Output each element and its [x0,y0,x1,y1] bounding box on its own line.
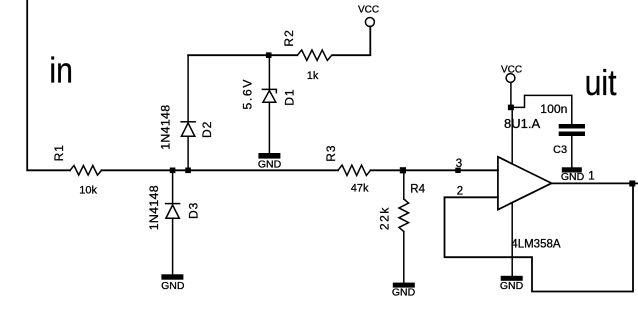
wire D3 to ground [172,218,174,274]
svg-text:R4: R4 [410,184,425,196]
wire R3 to op-amp pin3 [371,169,498,171]
wire input vertical + horizontal to R1 [27,0,70,170]
svg-text:R2: R2 [282,29,296,46]
wire R4 to ground [403,232,405,283]
svg-text:1: 1 [588,171,594,183]
zener diode D1 [262,89,276,102]
svg-text:GND: GND [500,280,524,292]
junction node pin8/VCC [508,105,514,111]
wire C3 to ground [571,136,573,167]
resistor R1 [70,166,101,176]
wire D1 to ground [268,102,270,153]
svg-text:VCC: VCC [501,65,522,76]
resistor R3 [338,165,370,175]
svg-text:D1: D1 [283,88,297,105]
svg-text:C3: C3 [553,144,567,156]
junction node R4/main wire [400,167,406,173]
wire pin8 into op-amp [511,107,513,163]
wire R4 branch upper lead [403,170,405,199]
wire op-amp pin2 feedback loop [445,183,634,291]
svg-text:D2: D2 [200,121,214,138]
svg-text:3: 3 [456,158,462,170]
svg-text:GND: GND [161,280,185,292]
power VCC (op-amp) [506,74,515,83]
svg-text:1k: 1k [307,70,319,82]
wire VCC to pin8 junction [510,82,512,105]
ground bar (C3) [562,167,582,172]
wire D2 branch lower lead [187,136,189,170]
svg-text:10k: 10k [79,184,97,196]
ground bar (D3) [161,274,183,279]
svg-text:4LM358A: 4LM358A [511,239,561,251]
svg-text:R1: R1 [52,144,66,161]
svg-text:5.6V: 5.6V [240,78,254,110]
power VCC (R2) [365,18,374,27]
svg-text:R3: R3 [324,144,338,161]
svg-text:VCC: VCC [358,4,379,15]
svg-text:47k: 47k [351,183,369,195]
ground bar (R4) [393,283,415,288]
diode D2 [181,122,195,137]
junction node D1/top rail [266,52,272,58]
wire top rail to R2 [188,54,297,56]
ground bar (op-amp pin4) [501,276,523,281]
resistor R2 [297,50,331,60]
svg-text:uit: uit [585,63,617,103]
capacitor C3 plates [559,124,585,129]
wire D1 branch upper lead [268,55,270,89]
resistor R4 [399,199,409,232]
op-amp U1 triangle [498,157,552,210]
wire D2 up to top rail [187,55,189,122]
svg-text:1N4148: 1N4148 [158,105,172,150]
svg-text:100n: 100n [540,102,567,116]
svg-text:D3: D3 [187,202,201,219]
wire junction to C3 jog [511,95,572,124]
svg-text:GND: GND [258,158,282,170]
wire main node to R3 [102,169,339,171]
wire op-amp output to right edge [552,182,638,184]
junction node D2/main wire [185,168,191,174]
svg-text:2: 2 [457,185,463,197]
wire R2 to VCC stem [333,27,371,56]
svg-text:8U1.A: 8U1.A [504,116,540,131]
wire op-amp pin4 to ground [511,203,513,276]
wire D3 branch upper lead [172,170,174,203]
junction node output/feedback [629,181,635,187]
svg-text:GND: GND [561,171,585,183]
svg-text:1N4148: 1N4148 [147,185,161,230]
diode D3 [166,204,180,219]
junction node pin3 [455,168,460,173]
svg-text:GND: GND [392,286,416,298]
svg-text:in: in [49,51,73,91]
ground bar (D1) [258,153,280,159]
junction node D3/main wire [170,168,176,174]
svg-text:22k: 22k [378,206,392,230]
